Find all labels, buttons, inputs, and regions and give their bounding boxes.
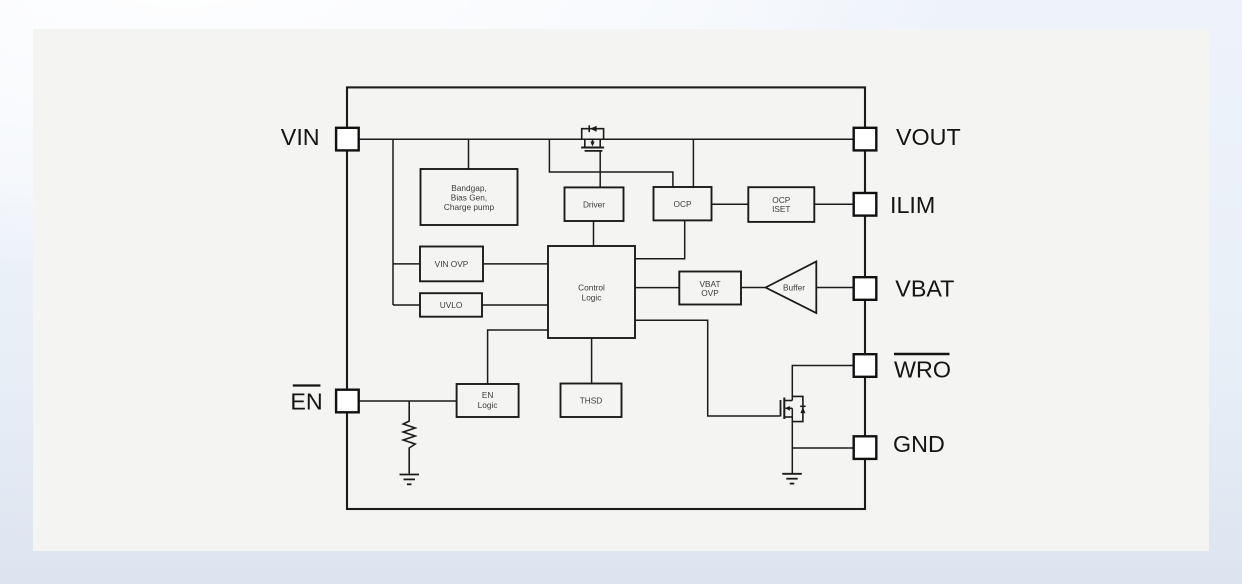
svg-text:Driver: Driver — [583, 199, 605, 209]
wire: Control Logic to VBAT OVP — [635, 287, 679, 289]
wire: VIN OVP to Control Logic — [483, 263, 548, 265]
VBAT OVP block — [679, 272, 741, 305]
svg-text:EN: EN — [290, 388, 322, 414]
wire: Q2 drain to WRO pin — [792, 366, 854, 401]
svg-text:Bias Gen,: Bias Gen, — [451, 192, 487, 202]
wire: feed to VIN OVP and UVLO — [392, 139, 394, 305]
pin VIN — [336, 128, 359, 151]
OCP block — [654, 187, 712, 220]
wire: Control Logic to THSD — [591, 338, 593, 384]
resistor R1 on EN pin — [403, 401, 415, 474]
wire: source to GND pin — [792, 447, 854, 449]
pin WRO — [854, 354, 877, 377]
wire: OCP ISET to ILIM pin — [814, 203, 854, 205]
wire: OCP to Control Logic — [635, 220, 685, 258]
svg-text:OVP: OVP — [701, 288, 719, 298]
wire: main VIN to VOUT rail — [359, 138, 854, 140]
wire: VBAT pin to buffer input — [816, 287, 854, 289]
EN Logic block — [457, 384, 519, 417]
wire: EN Logic to Control Logic — [488, 330, 548, 384]
VIN OVP block — [420, 247, 483, 282]
svg-text:Logic: Logic — [582, 293, 602, 303]
svg-text:VOUT: VOUT — [896, 124, 961, 150]
wire: VOUT-side sense tap to OCP — [692, 139, 694, 188]
Driver block — [565, 187, 624, 221]
wire: Control Logic to Q2 gate — [635, 320, 780, 416]
svg-text:Buffer: Buffer — [783, 282, 805, 292]
svg-text:Logic: Logic — [478, 400, 498, 410]
wire: branch to VIN OVP — [393, 263, 420, 265]
buffer amplifier (triangle) — [766, 262, 817, 314]
transistor Q2 (NMOS with body diode) — [781, 396, 806, 421]
ground symbol (below Q2) — [782, 474, 802, 484]
wire: Q1 gate to Driver — [599, 151, 601, 188]
wire: OCP to OCP ISET — [712, 203, 749, 205]
svg-text:VIN OVP: VIN OVP — [435, 259, 469, 269]
svg-text:WRO: WRO — [894, 356, 951, 382]
svg-text:THSD: THSD — [580, 395, 603, 405]
wire: Driver to Control Logic — [593, 221, 595, 246]
wire: VIN-side sense tap to OCP — [549, 139, 673, 188]
wire: Q2 source down to GND pin and ground — [791, 408, 793, 473]
svg-text:Control: Control — [578, 283, 605, 293]
svg-text:VIN: VIN — [281, 124, 320, 150]
THSD block — [561, 384, 622, 418]
svg-text:UVLO: UVLO — [440, 300, 463, 310]
svg-text:GND: GND — [893, 431, 945, 457]
wire: UVLO to Control Logic — [482, 304, 548, 306]
pin VOUT — [854, 128, 877, 151]
svg-text:VBAT: VBAT — [895, 275, 954, 301]
svg-text:ILIM: ILIM — [890, 192, 935, 218]
Bandgap / Bias Gen / Charge pump block — [421, 169, 518, 225]
pin VBAT — [854, 277, 877, 300]
svg-text:EN: EN — [482, 390, 494, 400]
wire: EN pin to EN Logic — [359, 400, 457, 402]
ground symbol (below R1) — [400, 475, 420, 485]
pin ILIM — [854, 193, 877, 216]
Control Logic block — [548, 246, 635, 338]
pin GND — [854, 436, 877, 459]
IC boundary rectangle — [347, 87, 865, 509]
svg-text:Charge pump: Charge pump — [444, 202, 495, 212]
wire: buffer output to VBAT OVP — [741, 287, 766, 289]
UVLO block — [420, 293, 482, 317]
svg-text:OCP: OCP — [674, 199, 692, 209]
pin EN — [336, 390, 359, 413]
OCP ISET block — [748, 187, 814, 222]
wire: feed to bandgap block — [468, 139, 470, 170]
wire: branch to UVLO — [393, 304, 420, 306]
svg-text:ISET: ISET — [772, 204, 790, 214]
pass transistor Q1 (PMOS with body diode) — [581, 125, 604, 151]
